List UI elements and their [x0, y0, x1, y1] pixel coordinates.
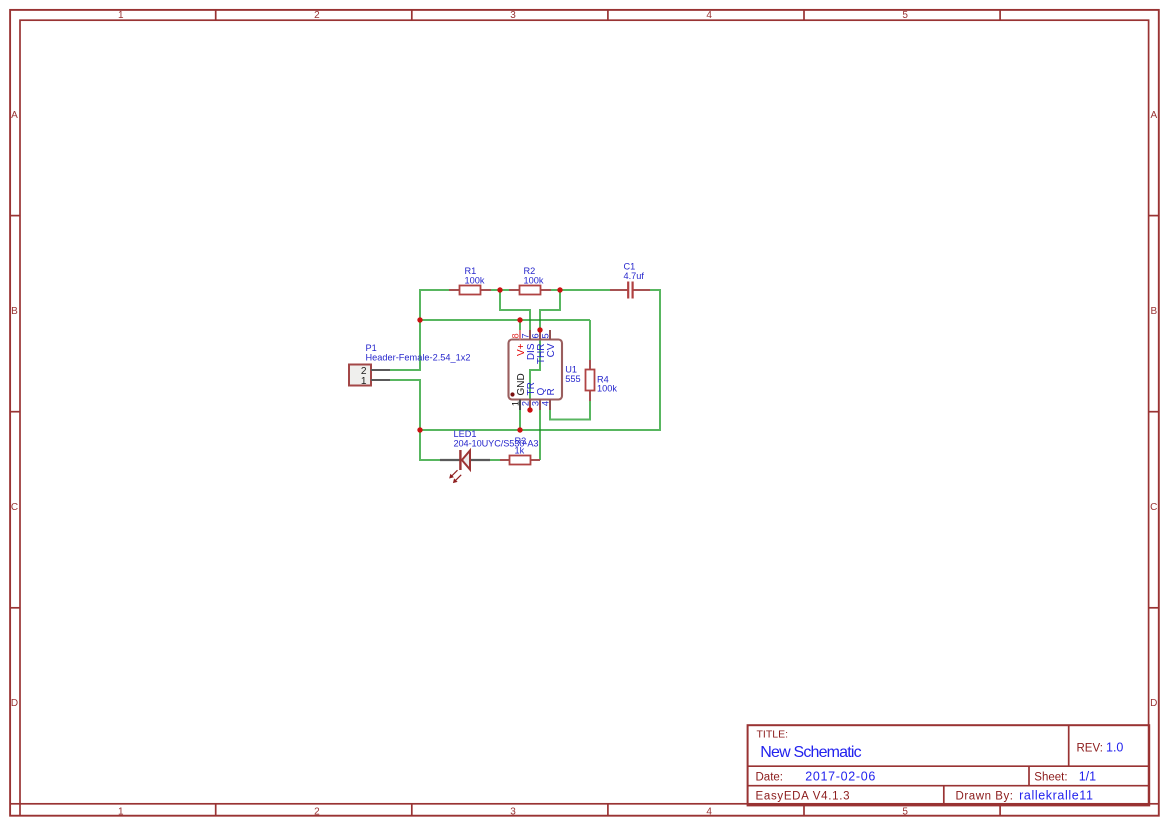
frame row ticks right — [1149, 216, 1159, 608]
U1 pin 4 stub R — [549, 400, 551, 411]
U1 pin 5 stub CV — [549, 330, 551, 340]
connector P1 pin 2 — [371, 369, 390, 371]
svg-text:B: B — [1150, 306, 1157, 317]
wire V+ rail horizontal — [420, 319, 590, 321]
svg-text:1: 1 — [361, 376, 367, 387]
junction dot R1-R2 node — [497, 287, 502, 292]
U1 pin number 8 — [511, 333, 521, 338]
LED1 emission arrow 2 — [453, 475, 461, 483]
svg-text:EasyEDA V4.1.3: EasyEDA V4.1.3 — [756, 791, 850, 803]
U1 pin 3 stub Q — [539, 400, 541, 411]
resistor R1 name label — [465, 266, 477, 276]
wire Q output down — [539, 410, 541, 460]
svg-text:5: 5 — [902, 10, 908, 21]
svg-text:6: 6 — [531, 333, 541, 338]
wire THR connection — [540, 290, 560, 330]
title block tool version EasyEDA V4.1.3 — [756, 791, 850, 803]
svg-text:5: 5 — [541, 333, 551, 338]
svg-text:1: 1 — [511, 401, 521, 406]
resistor R4 value label — [597, 384, 617, 394]
junction dot THR pin6 — [537, 327, 542, 332]
IC U1 555 body — [509, 340, 563, 400]
U1 pin number 4 — [541, 401, 551, 406]
frame row labels right — [1150, 110, 1157, 709]
svg-text:A: A — [11, 110, 18, 121]
connector P1 pin number 2 — [361, 366, 367, 377]
svg-text:2017-02-06: 2017-02-06 — [805, 770, 875, 784]
svg-text:P1: P1 — [366, 343, 377, 353]
svg-text:100k: 100k — [465, 276, 485, 286]
resistor R1 leads — [449, 289, 491, 291]
U1 pin name THR — [536, 344, 547, 365]
wire R4 bottom to pin4 — [550, 401, 590, 420]
junction dot TR pin2 — [527, 407, 532, 412]
wire THR to TR through U1 — [530, 330, 540, 410]
capacitor C1 name label — [624, 262, 636, 272]
U1 pin 2 stub TR — [529, 400, 531, 411]
U1 pin number 6 — [531, 333, 541, 338]
svg-text:New Schematic: New Schematic — [760, 744, 861, 761]
svg-text:Drawn By:: Drawn By: — [956, 791, 1014, 803]
svg-text:B: B — [11, 306, 18, 317]
title block DrawnBy divider — [943, 786, 945, 806]
wire P1 pin1 down — [390, 380, 420, 430]
wire R4 top vertical — [589, 320, 591, 360]
svg-text:2: 2 — [314, 10, 320, 21]
U1 pin 6 stub THR — [539, 330, 541, 340]
frame column labels top — [118, 10, 908, 21]
connector P1 pin 1 — [371, 379, 390, 381]
U1 pin 8 stub V+ — [519, 330, 521, 340]
LED1 value label — [454, 439, 539, 449]
svg-text:R: R — [546, 388, 557, 395]
svg-text:555: 555 — [565, 374, 580, 384]
svg-text:REV:: REV: — [1077, 743, 1103, 755]
svg-text:A: A — [1150, 110, 1157, 121]
resistor R4 leads — [589, 360, 591, 401]
svg-text:R1: R1 — [465, 266, 477, 276]
wire DIS connection — [500, 290, 530, 330]
svg-text:3: 3 — [531, 401, 541, 406]
U1 pin 1 stub GND — [519, 400, 521, 411]
title block date value 2017-02-06 — [805, 770, 875, 784]
title block author rallekralle11 — [1019, 789, 1093, 803]
svg-text:7: 7 — [521, 333, 531, 338]
LED1 left lead — [440, 459, 460, 461]
svg-text:Date:: Date: — [756, 772, 784, 784]
title block label Sheet: — [1034, 772, 1067, 784]
svg-text:4.7uf: 4.7uf — [624, 271, 645, 281]
svg-text:LED1: LED1 — [454, 429, 477, 439]
capacitor C1 plates — [628, 282, 632, 299]
title block row divider 2 — [748, 785, 1150, 787]
svg-text:U1: U1 — [565, 365, 577, 375]
U1 pin number 2 — [521, 401, 531, 406]
LED1 right lead — [471, 459, 491, 461]
svg-text:rallekralle11: rallekralle11 — [1019, 789, 1093, 803]
wire R2 to C1 segment — [550, 289, 610, 291]
resistor R3 name label — [515, 436, 527, 446]
LED1 emission arrow 1 — [449, 470, 457, 478]
U1 pin number 7 — [521, 333, 531, 338]
U1 pin name GND — [516, 373, 527, 395]
resistor R4 name label — [597, 374, 609, 384]
wire top rail left segment — [420, 289, 450, 291]
title block label Date: — [756, 772, 784, 784]
U1 name label — [565, 365, 577, 375]
capacitor C1 value label — [624, 271, 645, 281]
frame row ticks left — [10, 216, 20, 608]
svg-text:1: 1 — [118, 806, 124, 817]
wire crossing shade DIS over V+ rail — [529, 319, 531, 321]
svg-text:4: 4 — [706, 10, 712, 21]
wire crossing shade Q over ground rail — [539, 429, 541, 431]
U1 pin number 3 — [531, 401, 541, 406]
U1 pin number 1 — [511, 401, 521, 406]
connector P1 pin number 1 — [361, 376, 367, 387]
connector P1 value label — [366, 353, 471, 363]
svg-text:4: 4 — [541, 401, 551, 406]
U1 pin 7 stub DIS — [529, 330, 531, 340]
svg-text:C: C — [11, 502, 18, 513]
svg-text:1/1: 1/1 — [1079, 770, 1096, 784]
junction dot V+ rail pin8 — [517, 317, 522, 322]
resistor R1 value label — [465, 276, 485, 286]
svg-text:Header-Female-2.54_1x2: Header-Female-2.54_1x2 — [366, 353, 471, 363]
svg-text:5: 5 — [902, 806, 908, 817]
resistor R2 — [520, 286, 541, 295]
wire crossing shade THR over V+ rail — [539, 319, 541, 321]
junction dot V+ rail left — [417, 317, 422, 322]
wire R1 to R2 segment — [490, 289, 510, 291]
wire left vertical V+ — [390, 289, 420, 370]
svg-text:R2: R2 — [524, 266, 536, 276]
svg-text:3: 3 — [510, 10, 516, 21]
title block Sheet divider — [1028, 766, 1030, 786]
frame column labels bottom — [118, 806, 908, 817]
resistor R3 value label — [515, 446, 525, 456]
resistor R4 — [586, 370, 595, 391]
wire GND pin down — [519, 410, 521, 430]
frame bottom-left ruler cap — [10, 804, 1159, 816]
connector P1 body — [349, 365, 371, 386]
resistor R2 name label — [524, 266, 536, 276]
title block rev value 1.0 — [1106, 741, 1123, 755]
svg-text:100k: 100k — [524, 276, 544, 286]
LED1 cathode bar — [459, 450, 461, 470]
svg-text:D: D — [1150, 698, 1157, 709]
svg-text:3: 3 — [510, 806, 516, 817]
resistor R1 — [460, 286, 481, 295]
svg-text:2: 2 — [521, 401, 531, 406]
U1 value label — [565, 374, 580, 384]
junction dot ground rail left — [417, 427, 422, 432]
svg-text:4: 4 — [706, 806, 712, 817]
resistor R2 leads — [509, 289, 551, 291]
title block label REV: — [1077, 743, 1103, 755]
svg-text:1: 1 — [118, 10, 124, 21]
title block sheet value 1/1 — [1079, 770, 1096, 784]
junction dot ground rail GND pin — [517, 427, 522, 432]
U1 pin 1 marker dot — [510, 392, 514, 396]
svg-text:C: C — [1150, 502, 1157, 513]
junction dot R2-C1 node — [557, 287, 562, 292]
wire right vertical C1 down — [659, 289, 661, 430]
wire bottom ground rail — [420, 429, 661, 431]
U1 pin name TR — [526, 382, 537, 395]
title block title text New Schematic — [760, 744, 861, 761]
title block row divider 1 — [748, 765, 1150, 767]
U1 pin name R — [546, 388, 557, 395]
title block label TITLE: — [757, 729, 789, 741]
svg-text:8: 8 — [511, 333, 521, 338]
svg-text:Sheet:: Sheet: — [1034, 772, 1067, 784]
resistor R3 leads — [500, 459, 540, 461]
resistor R2 value label — [524, 276, 544, 286]
frame column ticks top — [216, 10, 1000, 20]
svg-text:2: 2 — [314, 806, 320, 817]
title block border — [748, 725, 1150, 805]
LED1 triangle — [462, 451, 470, 470]
U1 pin name Q — [536, 388, 547, 396]
U1 pin name CV — [546, 343, 557, 357]
resistor R3 — [510, 456, 531, 465]
U1 pin name V+ — [516, 343, 527, 356]
svg-text:D: D — [11, 698, 18, 709]
connector P1 name label — [366, 343, 377, 353]
svg-text:CV: CV — [546, 343, 557, 357]
capacitor C1 leads — [610, 289, 650, 291]
frame column ticks bottom — [216, 804, 1000, 816]
U1 pin name DIS — [526, 343, 537, 360]
LED1 name label — [454, 429, 477, 439]
wire LED to R3 — [490, 459, 500, 461]
wire C1 to right corner segment — [650, 289, 660, 291]
frame row labels left — [11, 110, 18, 709]
svg-text:204-10UYC/S530-A3: 204-10UYC/S530-A3 — [454, 439, 539, 449]
wire V+ to pin8 — [519, 320, 521, 330]
title block REV divider — [1068, 725, 1070, 766]
svg-text:100k: 100k — [597, 384, 617, 394]
svg-text:TITLE:: TITLE: — [757, 729, 789, 741]
wire LED row left — [420, 430, 440, 460]
U1 pin number 5 — [541, 333, 551, 338]
title block label Drawn By: — [956, 791, 1014, 803]
svg-text:1.0: 1.0 — [1106, 741, 1123, 755]
svg-text:C1: C1 — [624, 262, 636, 272]
